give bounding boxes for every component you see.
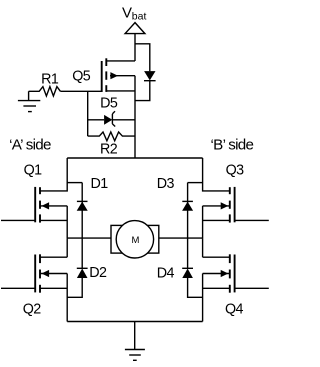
svg-text:D4: D4 xyxy=(157,265,175,281)
svg-text:‘B’ side: ‘B’ side xyxy=(211,137,254,154)
svg-text:V: V xyxy=(122,4,132,21)
svg-text:Q5: Q5 xyxy=(72,69,91,85)
svg-text:D2: D2 xyxy=(89,265,107,281)
svg-text:bat: bat xyxy=(132,11,147,23)
svg-text:D1: D1 xyxy=(91,176,109,192)
svg-text:Q2: Q2 xyxy=(23,302,42,318)
svg-text:R1: R1 xyxy=(41,72,59,88)
svg-text:D3: D3 xyxy=(157,176,175,192)
svg-text:Q1: Q1 xyxy=(24,162,43,178)
svg-text:D5: D5 xyxy=(100,96,118,112)
svg-text:‘A’ side: ‘A’ side xyxy=(9,137,51,154)
svg-text:M: M xyxy=(132,235,140,246)
svg-text:R2: R2 xyxy=(100,141,118,157)
svg-text:Q3: Q3 xyxy=(226,162,245,178)
svg-text:Q4: Q4 xyxy=(225,301,244,317)
